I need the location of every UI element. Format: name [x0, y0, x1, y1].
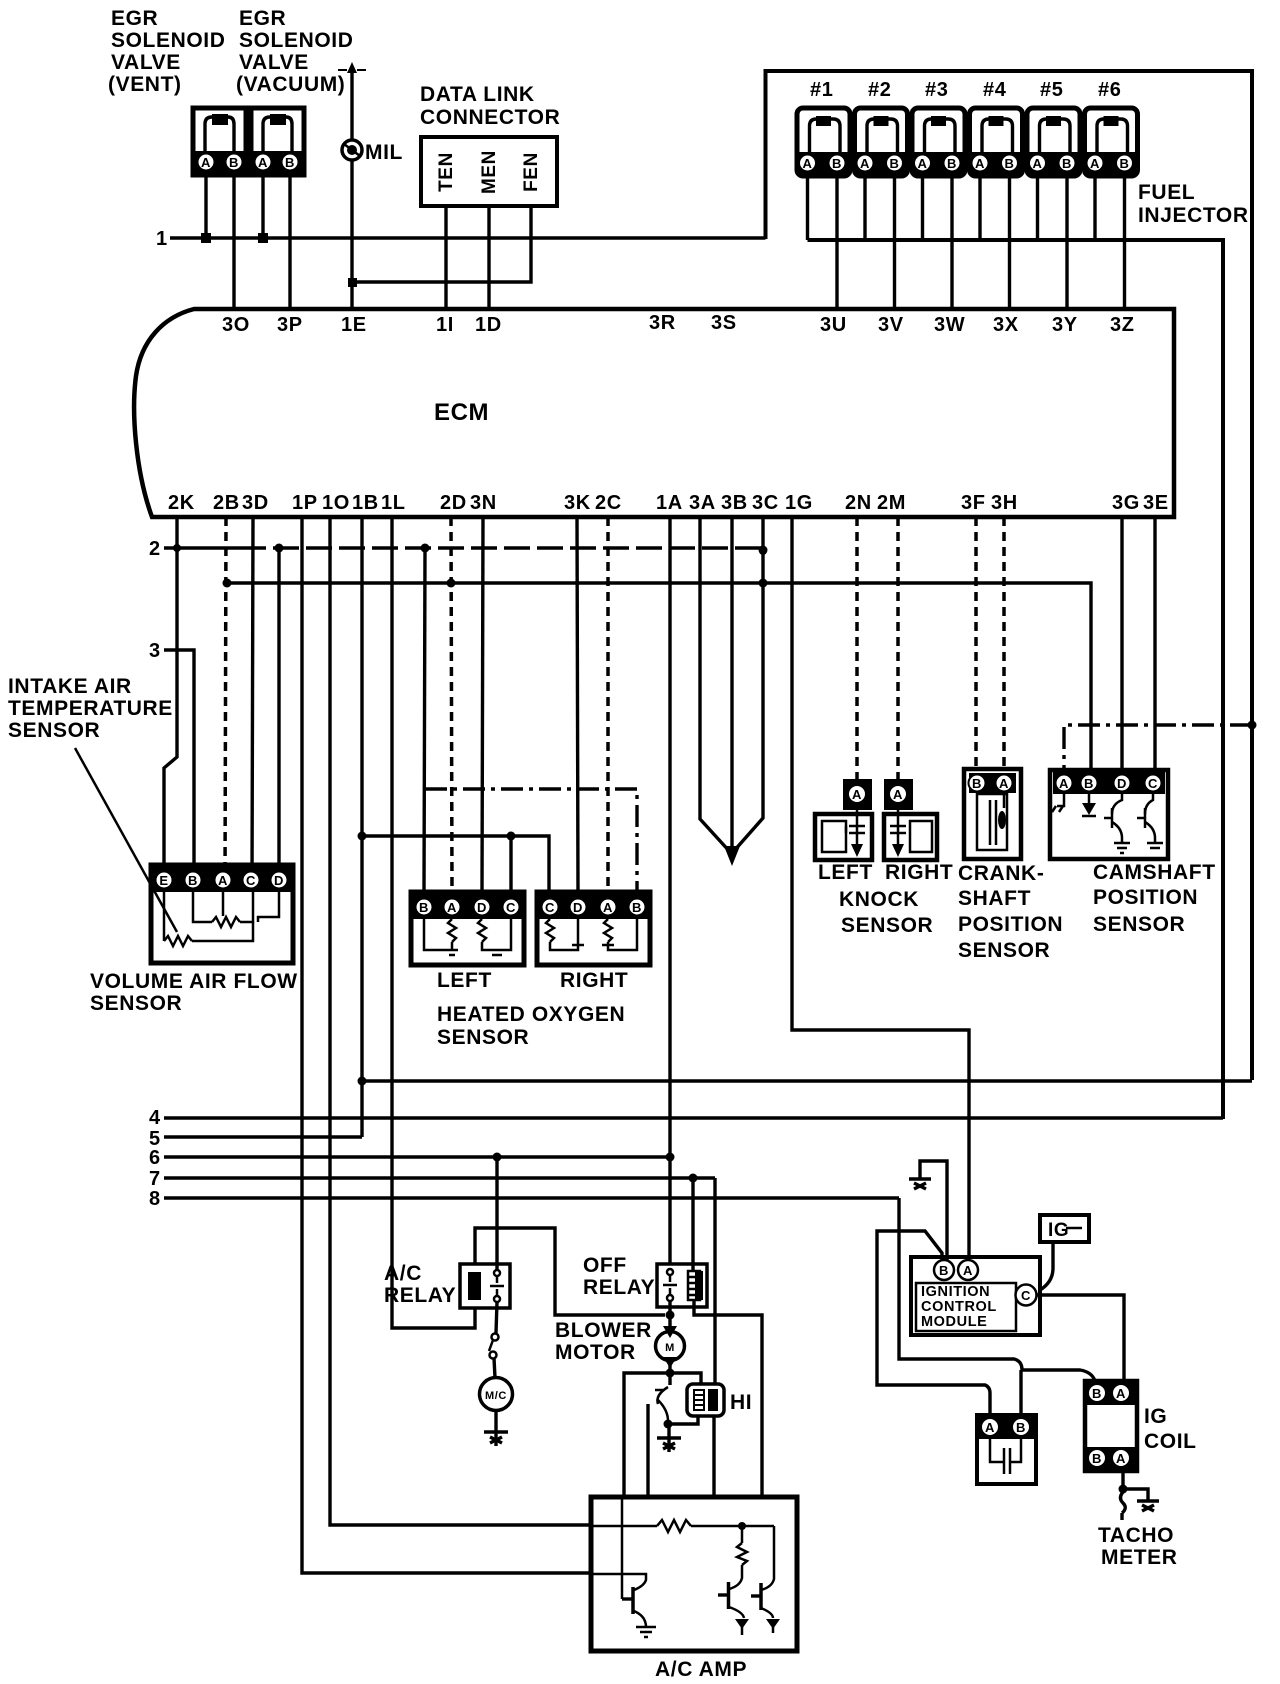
- node line6 / A-C relay branch: [493, 1153, 502, 1162]
- svg-text:1: 1: [156, 228, 168, 250]
- A/C AMP box: [591, 1497, 797, 1651]
- svg-text:CAMSHAFT: CAMSHAFT: [1093, 861, 1216, 884]
- node camshaft feed / frame junction: [1248, 721, 1257, 730]
- AMP internal resistor line: [591, 1520, 774, 1532]
- ground below blower switch: [657, 1438, 681, 1452]
- svg-text:1D: 1D: [475, 314, 502, 336]
- svg-text:IGNITION: IGNITION: [921, 1284, 990, 1300]
- svg-text:3H: 3H: [991, 492, 1018, 514]
- volume air flow sensor box: [151, 865, 293, 963]
- right knock sensor body: [884, 814, 937, 860]
- ground below M/C: [484, 1432, 508, 1446]
- svg-text:CRANK-: CRANK-: [958, 862, 1044, 885]
- left O2 pin D: [474, 899, 491, 916]
- module pin B: [934, 1260, 954, 1280]
- svg-text:VALVE: VALVE: [239, 51, 309, 74]
- svg-text:A: A: [985, 1420, 995, 1435]
- svg-text:A: A: [1033, 156, 1043, 171]
- svg-text:1E: 1E: [341, 314, 367, 336]
- wire line 6: [164, 1155, 670, 1158]
- svg-text:3X: 3X: [993, 314, 1019, 336]
- svg-text:TEN: TEN: [436, 152, 457, 192]
- svg-text:B: B: [947, 156, 957, 171]
- wire pressure switch to M/C clutch: [494, 1358, 495, 1378]
- crankshaft position sensor box: [964, 769, 1021, 859]
- svg-text:#2: #2: [868, 79, 891, 101]
- svg-text:HEATED OXYGEN: HEATED OXYGEN: [437, 1003, 625, 1026]
- svg-text:B: B: [890, 156, 900, 171]
- wire blower tap to A/C AMP: [624, 1373, 670, 1497]
- wire EGR vacuum B to ECM 3P: [288, 175, 291, 309]
- svg-text:KNOCK: KNOCK: [839, 888, 919, 911]
- svg-text:B: B: [1092, 1386, 1102, 1401]
- svg-text:C: C: [545, 900, 555, 915]
- label TACHO METER: [1098, 1524, 1178, 1569]
- camshaft position sensor box: [1050, 770, 1168, 859]
- svg-text:3Y: 3Y: [1052, 314, 1078, 336]
- label CAMSHAFT POSITION SENSOR: [1093, 861, 1216, 936]
- svg-text:A: A: [1059, 776, 1069, 791]
- svg-text:B: B: [632, 900, 642, 915]
- wire 1B down to line 5: [360, 517, 363, 1137]
- wire injector #4 pin B to ECM: [1008, 176, 1011, 309]
- label FUEL INJECTOR: [1138, 181, 1249, 227]
- pin A: [215, 872, 232, 889]
- label EGR SOLENOID VALVE (VACUUM): [236, 7, 353, 96]
- svg-text:B: B: [1120, 156, 1130, 171]
- A/C pressure switch: [489, 1334, 499, 1359]
- cam output transistor D: [1104, 794, 1130, 853]
- svg-text:MODULE: MODULE: [921, 1314, 987, 1330]
- svg-text:A/C: A/C: [384, 1262, 422, 1285]
- AMP transistor Q3: [751, 1583, 773, 1618]
- VAF pin band: [153, 867, 291, 892]
- callout line to IAT element: [75, 748, 177, 932]
- svg-text:TEMPERATURE: TEMPERATURE: [8, 697, 173, 720]
- svg-text:SENSOR: SENSOR: [841, 914, 933, 937]
- label VOLUME AIR FLOW SENSOR: [90, 970, 298, 1015]
- wire 3K to right O2 D: [577, 517, 578, 892]
- svg-text:B: B: [832, 156, 842, 171]
- svg-text:RIGHT: RIGHT: [885, 861, 953, 884]
- svg-text:A: A: [893, 787, 903, 802]
- wire 3F (shielded) to crankshaft sensor B: [974, 517, 978, 769]
- wire line 5 to ECM 1B: [164, 1135, 362, 1138]
- wire FEN to MIL line: [352, 206, 531, 282]
- condenser capacitor symbol: [990, 1439, 1021, 1474]
- svg-text:METER: METER: [1101, 1546, 1178, 1569]
- left O2 internal elements: [424, 919, 511, 955]
- A/C relay box: [460, 1264, 510, 1308]
- wire OFF relay coil bottom to blower resistor feed: [694, 1300, 762, 1497]
- svg-text:B: B: [229, 155, 239, 170]
- node line8 drop / condenser branch: [877, 1231, 990, 1415]
- wire 1A to OFF relay switch: [668, 517, 671, 1264]
- wire 3A off-page: [700, 517, 731, 853]
- wire 3N to left O2 D: [482, 517, 483, 892]
- injector power frame: [766, 71, 1253, 1080]
- wire from line 2 to VAF D: [277, 548, 280, 884]
- svg-text:POSITION: POSITION: [1093, 886, 1198, 909]
- wire injector #3 pin A to A-bus: [921, 176, 924, 240]
- svg-text:3F: 3F: [961, 492, 986, 514]
- crank pickup coil: [977, 794, 1007, 850]
- svg-text:EGR: EGR: [111, 7, 158, 30]
- svg-text:EGR: EGR: [239, 7, 286, 30]
- ignition control module box: [911, 1257, 1040, 1335]
- wire injector #3 pin B to ECM: [950, 176, 953, 309]
- IG coil top pin B: [1088, 1384, 1106, 1402]
- svg-text:#3: #3: [925, 79, 948, 101]
- wire EGR vent B to ECM 3O: [232, 175, 235, 309]
- svg-text:ECM: ECM: [434, 399, 489, 426]
- svg-text:A: A: [447, 900, 457, 915]
- pin E: [156, 872, 173, 889]
- svg-text:2: 2: [149, 538, 161, 560]
- svg-text:B: B: [1005, 156, 1015, 171]
- wire 3D to VAF C: [252, 517, 253, 884]
- left knock sensor body: [815, 814, 872, 860]
- svg-text:3N: 3N: [470, 492, 497, 514]
- wire injector #6 pin A to A-bus: [1093, 176, 1096, 240]
- right O2 pin A: [600, 899, 617, 916]
- label INTAKE AIR TEMPERATURE SENSOR: [8, 675, 173, 742]
- wire IG to module C: [1040, 1242, 1053, 1290]
- pin B: [185, 872, 202, 889]
- wire line 3 stub to VAF B: [164, 650, 194, 884]
- svg-text:B: B: [939, 1263, 949, 1278]
- svg-text:CONNECTOR: CONNECTOR: [420, 106, 560, 129]
- svg-text:3O: 3O: [222, 314, 250, 336]
- label A/C RELAY: [384, 1262, 456, 1307]
- HI relay: [687, 1384, 724, 1416]
- svg-text:A: A: [852, 787, 862, 802]
- svg-text:SENSOR: SENSOR: [90, 992, 182, 1015]
- AMP left transistor Q1: [591, 1497, 646, 1627]
- wire 2B (shielded) to VAF A: [225, 517, 226, 884]
- svg-text:3A: 3A: [689, 492, 716, 514]
- wire OFF relay coil to line 7: [691, 1178, 694, 1271]
- wire injector #2 pin A to A-bus: [863, 176, 866, 240]
- wire 2B bus to camshaft sensor B: [227, 583, 1091, 769]
- svg-text:D: D: [573, 900, 583, 915]
- right knock sensor connector A: [884, 779, 913, 810]
- label IG COIL: [1144, 1405, 1197, 1453]
- node line2 end at 3C: [759, 546, 768, 555]
- wire injector #5 pin A to A-bus: [1036, 176, 1039, 240]
- left O2 pin A: [444, 899, 461, 916]
- Q1 emitter ground: [636, 1627, 656, 1637]
- svg-text:1G: 1G: [785, 492, 813, 514]
- wire A/C relay coil top to OFF relay switch: [475, 1228, 665, 1315]
- svg-text:RELAY: RELAY: [384, 1284, 456, 1307]
- svg-text:A: A: [258, 155, 268, 170]
- svg-text:FEN: FEN: [521, 152, 542, 192]
- svg-text:TACHO: TACHO: [1098, 1524, 1174, 1547]
- module inner box and text: [916, 1283, 1016, 1331]
- blower fan switch: [655, 1387, 668, 1421]
- svg-text:BLOWER: BLOWER: [555, 1319, 652, 1342]
- node switch low contact: [664, 1420, 673, 1429]
- fuel injector #3 connector: [912, 108, 965, 176]
- IG coil box: [1085, 1381, 1137, 1471]
- svg-text:(VACUUM): (VACUUM): [236, 73, 345, 96]
- pin C: [243, 872, 260, 889]
- svg-text:D: D: [477, 900, 487, 915]
- svg-text:#5: #5: [1040, 79, 1063, 101]
- cam pin D: [1114, 775, 1131, 792]
- wire drop to left O2 C: [509, 836, 512, 892]
- wire EGR vent A to line 1: [204, 175, 207, 238]
- OFF relay box: [657, 1264, 707, 1307]
- wire ground to module B: [920, 1161, 947, 1260]
- svg-text:(VENT): (VENT): [108, 73, 182, 96]
- wire blower motor to resistor switch: [668, 1360, 671, 1385]
- wire 2K to VAF E: [164, 517, 177, 884]
- svg-text:SENSOR: SENSOR: [437, 1026, 529, 1049]
- node line7 / OFF relay coil: [689, 1174, 698, 1183]
- svg-text:B: B: [419, 900, 429, 915]
- svg-text:3C: 3C: [752, 492, 779, 514]
- injector A-pins power bus: [808, 240, 1224, 1119]
- node EGR vacuum A / line 1 junction: [258, 233, 268, 243]
- wire 3G to camshaft sensor D: [1120, 517, 1123, 770]
- svg-text:1O: 1O: [322, 492, 350, 514]
- wire 3H (shielded) to crankshaft sensor A: [1002, 517, 1006, 769]
- svg-text:2C: 2C: [595, 492, 622, 514]
- wire 1P to A/C AMP: [302, 517, 591, 1573]
- wire 1L to A/C relay coil: [392, 517, 475, 1328]
- svg-text:VALVE: VALVE: [111, 51, 181, 74]
- OFF relay coil: [688, 1271, 703, 1300]
- svg-text:C: C: [1021, 1288, 1031, 1303]
- wire blower tap to HI relay top: [670, 1373, 701, 1384]
- wire MEN to ECM 1D: [487, 206, 490, 309]
- svg-text:SENSOR: SENSOR: [958, 939, 1050, 962]
- fuel injector #2 connector: [855, 108, 908, 176]
- svg-text:POSITION: POSITION: [958, 913, 1063, 936]
- cam pin B: [1081, 775, 1098, 792]
- svg-text:3R: 3R: [649, 312, 676, 334]
- svg-text:#6: #6: [1098, 79, 1121, 101]
- IG coil bottom pin B: [1088, 1449, 1106, 1467]
- node FEN / 1E junction: [348, 278, 357, 287]
- svg-text:8: 8: [149, 1188, 161, 1210]
- svg-text:2M: 2M: [877, 492, 906, 514]
- svg-text:B: B: [1092, 1451, 1102, 1466]
- wire line 4: [164, 1116, 1223, 1119]
- AMP transistor Q2: [718, 1582, 744, 1618]
- svg-text:VOLUME AIR FLOW: VOLUME AIR FLOW: [90, 970, 298, 993]
- svg-text:D: D: [274, 873, 284, 888]
- ECM box: [134, 309, 1174, 517]
- right O2 pin D: [570, 899, 587, 916]
- node coil output / ground branch: [1119, 1485, 1128, 1494]
- svg-text:LEFT: LEFT: [818, 861, 873, 884]
- svg-text:IG: IG: [1144, 1405, 1167, 1428]
- blower motor: [663, 1326, 677, 1338]
- svg-text:A: A: [999, 776, 1009, 791]
- svg-text:B: B: [1016, 1420, 1026, 1435]
- svg-text:A: A: [1116, 1386, 1126, 1401]
- svg-text:6: 6: [149, 1147, 161, 1169]
- svg-text:#4: #4: [983, 79, 1007, 101]
- svg-text:B: B: [188, 873, 198, 888]
- svg-text:2N: 2N: [845, 492, 872, 514]
- EGR solenoid valve (vent) connector: [193, 108, 246, 175]
- svg-text:E: E: [159, 873, 168, 888]
- wire low contact to HI relay bottom: [668, 1416, 698, 1424]
- wire 1O to A/C AMP: [330, 517, 591, 1525]
- fuel injector #1 connector: [797, 108, 850, 176]
- svg-text:1I: 1I: [436, 314, 454, 336]
- wire 2C (shielded) to right O2 A: [606, 517, 610, 892]
- node OFF relay switch / A-C coil feed: [666, 1311, 675, 1320]
- svg-text:#1: #1: [810, 79, 833, 101]
- IG coil bottom pin A: [1112, 1449, 1130, 1467]
- svg-text:3E: 3E: [1143, 492, 1169, 514]
- label EGR SOLENOID VALVE (VENT): [108, 7, 225, 96]
- svg-text:1L: 1L: [381, 492, 406, 514]
- wire condenser B to IG coil B feed: [1019, 1370, 1022, 1416]
- svg-text:M/C: M/C: [485, 1390, 507, 1402]
- VAF potentiometer wiring: [193, 892, 279, 927]
- svg-text:A: A: [803, 156, 813, 171]
- node 1B / power-bus branch: [358, 1077, 367, 1086]
- node blower motor output: [666, 1369, 675, 1378]
- label CRANKSHAFT POSITION SENSOR: [958, 862, 1063, 962]
- node line2 drop to VAF D: [275, 544, 284, 553]
- svg-text:A: A: [963, 1263, 973, 1278]
- svg-text:B: B: [972, 776, 982, 791]
- svg-text:C: C: [506, 900, 516, 915]
- right O2 pin B: [629, 899, 646, 916]
- svg-text:A: A: [918, 156, 928, 171]
- wire line 8 to ignition circuit: [899, 1198, 1095, 1381]
- svg-text:B: B: [285, 155, 295, 170]
- wire 3C off-page: [733, 517, 763, 852]
- left O2 pin B: [416, 899, 433, 916]
- svg-text:3: 3: [149, 640, 161, 662]
- wire OFF relay switch to blower motor: [668, 1301, 671, 1330]
- svg-text:3U: 3U: [820, 314, 847, 336]
- condenser box: [977, 1415, 1036, 1484]
- crank pin B: [969, 775, 986, 792]
- svg-text:7: 7: [149, 1168, 161, 1190]
- wire 1E: MIL lamp line from arrow to ECM: [350, 66, 353, 309]
- data link connector box: [421, 137, 557, 206]
- M/C magnetic clutch: [480, 1378, 513, 1411]
- IG connector box: [1040, 1215, 1089, 1242]
- wire injector #1 pin A to A-bus: [806, 176, 809, 240]
- svg-text:LEFT: LEFT: [437, 969, 492, 992]
- svg-text:2B: 2B: [213, 492, 240, 514]
- OFF relay switch: [663, 1269, 677, 1301]
- svg-text:HI: HI: [730, 1391, 752, 1414]
- svg-text:C: C: [1148, 776, 1158, 791]
- svg-text:A: A: [218, 873, 228, 888]
- condenser pin B: [1012, 1418, 1030, 1436]
- svg-text:A: A: [860, 156, 870, 171]
- svg-text:COIL: COIL: [1144, 1430, 1197, 1453]
- svg-text:A: A: [975, 156, 985, 171]
- wire 2D (shielded) to left O2 A: [451, 517, 452, 892]
- wire injector #1 pin B to ECM: [835, 176, 838, 309]
- svg-text:A: A: [603, 900, 613, 915]
- svg-text:MOTOR: MOTOR: [555, 1341, 636, 1364]
- svg-text:B: B: [1084, 776, 1094, 791]
- svg-text:3G: 3G: [1112, 492, 1140, 514]
- wire TEN to ECM 1I: [444, 206, 447, 309]
- cam pin C: [1145, 775, 1162, 792]
- ECM bottom pin labels: [168, 492, 1169, 514]
- wire 1B branch to oxygen sensors C pins: [362, 836, 549, 892]
- svg-text:A/C AMP: A/C AMP: [655, 1658, 747, 1681]
- node branch to left O2 C: [507, 832, 516, 841]
- wire line 8: [164, 1196, 899, 1199]
- node line6 end at 1A: [666, 1153, 675, 1162]
- cam internal ground B: [1088, 794, 1091, 805]
- svg-text:SOLENOID: SOLENOID: [239, 29, 353, 52]
- ground at IG coil output: [1137, 1501, 1159, 1511]
- wire EGR vacuum A to line 1: [261, 175, 264, 238]
- svg-text:A: A: [201, 155, 211, 170]
- wire branch to module B: [899, 1231, 942, 1260]
- svg-text:1B: 1B: [352, 492, 379, 514]
- VAF intake air temp thermistor: [164, 892, 253, 946]
- MIL indicator lamp: [342, 140, 362, 160]
- svg-text:1A: 1A: [656, 492, 683, 514]
- node line2 drop to left O2 B: [421, 544, 430, 553]
- svg-text:MIL: MIL: [365, 141, 403, 164]
- svg-text:FUEL: FUEL: [1138, 181, 1195, 204]
- svg-text:3K: 3K: [564, 492, 591, 514]
- wire power bus 1B to injector frame: [362, 1079, 1252, 1082]
- wire 1G to ignition control module A: [792, 517, 969, 1257]
- right O2 internal elements: [546, 919, 637, 950]
- svg-text:1P: 1P: [292, 492, 318, 514]
- svg-text:M: M: [665, 1342, 675, 1354]
- node EGR vent A / line 1 junction: [201, 233, 211, 243]
- node 3C / bus junction: [759, 579, 768, 588]
- svg-text:3B: 3B: [721, 492, 748, 514]
- wire line 2: [164, 546, 240, 549]
- svg-text:B: B: [1062, 156, 1072, 171]
- svg-text:4: 4: [149, 1107, 161, 1129]
- svg-text:3V: 3V: [878, 314, 904, 336]
- label OFF RELAY: [583, 1254, 655, 1299]
- A/C relay switch: [490, 1270, 504, 1302]
- wire ME contact to A/C AMP: [646, 1404, 649, 1497]
- ECM top pin labels: [222, 312, 1135, 336]
- fuel injector #4 connector: [970, 108, 1023, 176]
- wire branch to right O2 B (dash-dot): [425, 789, 637, 892]
- cam internal ground A: [1052, 794, 1064, 812]
- svg-text:OFF: OFF: [583, 1254, 627, 1277]
- wire M/C to ground: [494, 1411, 497, 1432]
- svg-text:MEN: MEN: [479, 150, 500, 194]
- svg-text:3W: 3W: [934, 314, 965, 336]
- wire injector #6 pin B to ECM: [1123, 176, 1126, 309]
- svg-text:IG: IG: [1048, 1220, 1069, 1241]
- left heated oxygen sensor box: [411, 892, 524, 965]
- label LEFT RIGHT KNOCK SENSOR: [818, 861, 953, 937]
- wire injector #5 pin B to ECM: [1065, 176, 1068, 309]
- node 2B / bus junction: [223, 579, 232, 588]
- module pin A: [958, 1260, 978, 1280]
- wire line 7: [164, 1176, 715, 1179]
- svg-text:2D: 2D: [440, 492, 467, 514]
